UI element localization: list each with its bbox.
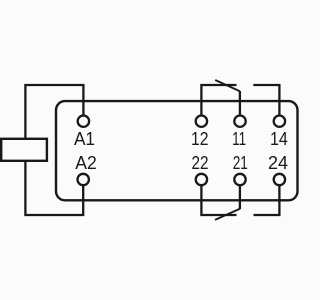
contact blade top (wiper on 12) — [215, 80, 240, 91]
terminal 14 — [274, 116, 285, 127]
svg-text:A2: A2 — [75, 153, 97, 173]
terminal 21 — [234, 174, 245, 185]
svg-text:22: 22 — [192, 153, 209, 173]
coil K — [1, 139, 47, 161]
terminal A1 — [78, 116, 89, 127]
terminal 22 — [196, 174, 207, 185]
wire 21 riser bottom — [239, 185, 241, 209]
wire 22 riser and NC contact bar — [201, 185, 236, 215]
wire 14 NO contact and riser — [253, 85, 279, 116]
wire coil bottom to A2 — [25, 161, 83, 216]
svg-text:A1: A1 — [74, 129, 95, 149]
svg-text:12: 12 — [191, 129, 209, 149]
wire coil top to A1 — [25, 85, 83, 139]
svg-text:21: 21 — [233, 153, 248, 173]
svg-text:24: 24 — [268, 153, 288, 173]
svg-text:14: 14 — [270, 129, 288, 149]
terminal 24 — [274, 174, 285, 185]
wire 11 riser top — [239, 91, 241, 116]
terminal 11 — [234, 116, 245, 127]
relay body outline — [56, 101, 298, 200]
terminal A2 — [78, 174, 89, 185]
terminal 12 — [196, 116, 207, 127]
svg-text:11: 11 — [232, 129, 246, 149]
wire 24 NO contact and riser — [254, 185, 280, 215]
wire 12 riser and NC contact bar — [201, 85, 236, 116]
contact blade bottom (wiper on 22) — [215, 209, 240, 220]
